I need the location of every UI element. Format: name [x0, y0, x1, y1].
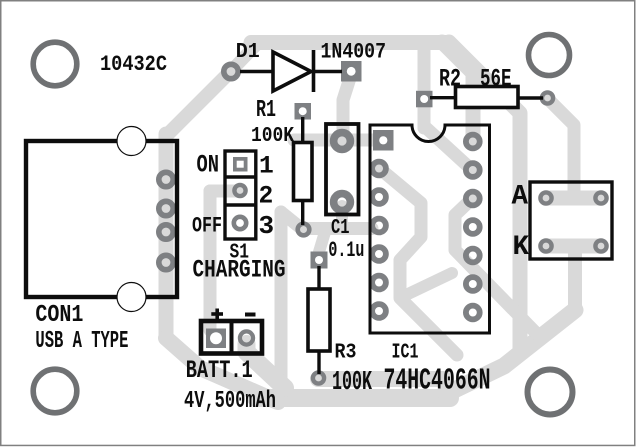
wire R2 right pad to A bar stem — [548, 99, 574, 193]
wire A bar — [546, 191, 601, 206]
resistor R3 — [308, 266, 330, 374]
svg-text:100K: 100K — [332, 368, 373, 398]
svg-text:BATT.1: BATT.1 — [186, 357, 253, 385]
pad BATT plus (square) — [206, 329, 226, 349]
wire K net diagonal to band — [446, 310, 575, 394]
wire rail drop to R2 left pad — [418, 45, 431, 128]
pad USB pin4 — [159, 255, 173, 269]
switch S1 outline — [225, 151, 256, 239]
wire R1 net down to band — [275, 212, 288, 396]
wire USB vertical column — [159, 134, 174, 338]
pad K right — [595, 240, 606, 251]
wire USB column elbow to bottom band — [166, 338, 278, 402]
pad IC1 pin9 — [466, 277, 480, 291]
pad IC1 pin7 — [372, 304, 386, 318]
pad A left — [540, 192, 551, 203]
diode D1 symbol — [240, 50, 342, 92]
svg-text:ON: ON — [197, 152, 220, 179]
label - (BATT minus) — [245, 313, 256, 317]
battery BATT.1 outline — [201, 321, 262, 354]
pad IC1 pin4 — [372, 219, 386, 233]
mounting hole bottom-right — [528, 370, 573, 415]
label + (BATT plus) — [211, 309, 223, 320]
pad K left — [540, 240, 551, 251]
svg-text:R3: R3 — [335, 342, 357, 365]
wire connector to pin2 wiggle — [408, 273, 452, 294]
pad R1 top (square) — [295, 103, 312, 120]
pad A right — [595, 192, 606, 203]
pad S1 pin1 (square ring) — [233, 157, 248, 172]
wire K net stem — [568, 252, 582, 310]
svg-text:4V,500mAh: 4V,500mAh — [184, 388, 276, 415]
svg-text:2: 2 — [259, 184, 274, 211]
pad IC1 pin1 (square) — [373, 130, 394, 151]
pad USB pin3 — [159, 225, 173, 239]
pad IC1 pin8 — [466, 306, 480, 320]
pad IC1 pin5 — [372, 247, 386, 261]
wire IC pin2 wiggle to band — [379, 168, 457, 355]
mounting hole bottom-left — [33, 369, 77, 413]
svg-text:K: K — [513, 232, 530, 263]
pad S1 pin2 — [234, 185, 245, 196]
connector CON1 outline — [26, 141, 177, 297]
svg-text:OFF: OFF — [192, 214, 222, 239]
mounting hole top-left — [33, 42, 77, 86]
svg-text:56E: 56E — [480, 65, 512, 93]
svg-text:D1: D1 — [236, 40, 260, 64]
pad IC1 pin2 — [372, 162, 386, 176]
svg-text:1: 1 — [259, 154, 274, 181]
pad IC1 pin14 — [466, 135, 480, 149]
wire link down to R3 top — [319, 232, 325, 252]
wire R2 pad to IC pin13 — [424, 126, 471, 169]
CON1 bottom index circle — [117, 283, 146, 312]
wire IC pin12 down to K diagonal — [455, 198, 540, 337]
svg-text:0.1u: 0.1u — [328, 237, 364, 263]
resistor R2 — [430, 87, 543, 108]
svg-text:A: A — [512, 182, 529, 213]
svg-text:USB A TYPE: USB A TYPE — [35, 328, 128, 355]
pad D1 anode — [224, 64, 238, 78]
wire R1 bottom to IC pin4 — [303, 222, 372, 235]
svg-text:74HC4066N: 74HC4066N — [384, 364, 491, 399]
svg-text:R1: R1 — [256, 97, 276, 124]
terminal block A/K outline — [530, 182, 612, 259]
svg-text:3: 3 — [259, 211, 275, 241]
pad IC1 pin10 — [466, 249, 480, 263]
wire S1 pin2 down to BATT+ — [204, 191, 217, 330]
wire top rail — [251, 35, 449, 50]
svg-text:CON1: CON1 — [35, 302, 83, 329]
pad R2 right — [542, 92, 553, 103]
svg-text:R2: R2 — [439, 65, 461, 93]
svg-text:10432C: 10432C — [100, 51, 167, 77]
wire rail elbow down to node V1 — [449, 42, 520, 352]
wire R1 bottom stub to elbow — [281, 212, 302, 229]
mounting hole top-right — [529, 35, 570, 76]
wire bottom band upper (R3 pad run) — [318, 371, 445, 387]
wire D1 anode down to USB column — [166, 71, 231, 136]
wire K bar — [546, 239, 601, 254]
wire BATT minus to band — [247, 344, 286, 388]
svg-text:CHARGING: CHARGING — [193, 258, 286, 285]
pad R2 left (square) — [416, 91, 433, 108]
wire S1 pin2 stub — [210, 185, 238, 198]
svg-text:IC1: IC1 — [392, 342, 419, 365]
pad D1 cathode (square) — [341, 61, 362, 82]
wire D1 cathode down to C1 top — [343, 78, 350, 130]
wire R1 C1 IC pin1 horizontal — [294, 134, 379, 147]
pad IC1 pin12 — [466, 192, 480, 206]
pad R3 top (square) — [311, 252, 328, 269]
pad R3 bottom — [313, 372, 324, 383]
pad IC1 pin6 — [372, 276, 386, 290]
IC1 outline with notch — [370, 125, 490, 333]
pad USB pin1 — [159, 172, 173, 186]
pad C1 top — [334, 133, 351, 150]
wire stub up to C1 bottom — [336, 206, 348, 226]
wire bottom band lower — [256, 389, 450, 407]
svg-text:100K: 100K — [251, 125, 294, 148]
pad S1 pin3 — [234, 217, 246, 229]
pad C1 bottom — [334, 194, 351, 211]
capacitor C1 outline — [326, 124, 359, 215]
pad IC1 pin13 — [466, 163, 480, 177]
pad BATT minus — [240, 331, 253, 344]
svg-text:1N4007: 1N4007 — [321, 39, 387, 65]
wire rail branch to IC pin14 — [442, 42, 473, 140]
pad USB pin2 — [159, 201, 173, 215]
CON1 top index circle — [117, 127, 146, 156]
resistor R1 — [294, 117, 313, 225]
pad IC1 pin3 — [372, 190, 386, 204]
pad R1 bottom — [298, 224, 310, 236]
pad IC1 pin11 — [466, 220, 480, 234]
wire D1 anode to top rail — [231, 45, 256, 71]
